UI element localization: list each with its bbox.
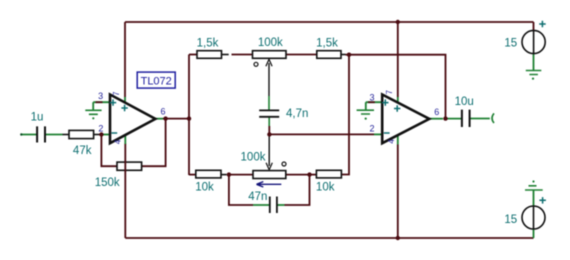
input terminal: [20, 133, 22, 135]
svg-text:100k: 100k: [258, 37, 283, 49]
V2 plus mark: [539, 197, 546, 204]
wire U2 output to C4: [446, 118, 462, 120]
node D junction: [267, 132, 271, 136]
capacitor C4 10u: [462, 110, 470, 127]
resistor R5 47k: [69, 130, 94, 138]
node left column junction: [187, 116, 191, 120]
wire node B to P2: [229, 174, 253, 176]
wire right column: [341, 55, 349, 175]
svg-text:7: 7: [112, 91, 121, 96]
potentiometer P1 terminal o: [254, 62, 258, 66]
wire C1 to R47k: [45, 134, 63, 136]
wire node D to bottom wiper: [268, 134, 270, 166]
potentiometer P2 wiper arrow: [266, 163, 272, 170]
svg-text:100k: 100k: [241, 151, 266, 163]
capacitor C3 47n: [270, 197, 277, 214]
U1 noninverting input plus mark: [110, 99, 116, 105]
wire node C to 10k right: [310, 174, 317, 176]
U1 positive supply plus mark: [121, 105, 127, 111]
wire op-amp U2 pin7 drop: [397, 22, 399, 97]
ground op-amp U2: [357, 110, 374, 114]
output terminal: [492, 113, 494, 123]
wire left column: [188, 55, 190, 176]
wire top supply rail: [125, 21, 534, 23]
wire op-amp U1 pin4 supply drop: [124, 144, 126, 239]
potentiometer P2 adjust arrow: [257, 182, 282, 187]
svg-text:47k: 47k: [73, 145, 92, 157]
ground top supply: [526, 71, 542, 75]
svg-text:4: 4: [387, 139, 396, 144]
U1 inverting input minus mark: [111, 132, 117, 134]
wire left column to R1: [189, 54, 197, 56]
node bottom rail junction: [396, 236, 400, 240]
resistor R3 10k left: [196, 170, 221, 178]
op-amp U2: [382, 95, 429, 144]
wire bottom supply lower: [533, 229, 535, 238]
wire 47n loop left: [229, 175, 253, 205]
wire top supply stub: [533, 22, 535, 31]
node C junction: [307, 172, 311, 176]
wire R47k to U1 pin2: [94, 134, 99, 136]
wire top supply to ground: [533, 54, 535, 71]
wire P2 to node C: [286, 174, 310, 176]
wire bottom supply rail: [125, 237, 533, 239]
wire C4 to output terminal: [470, 118, 490, 120]
svg-text:10k: 10k: [195, 182, 214, 194]
svg-text:10u: 10u: [455, 96, 474, 108]
resistor R1 1,5k: [197, 51, 222, 59]
node top right junction: [347, 53, 351, 57]
label TL072: [137, 72, 175, 88]
capacitor C2 4,7n: [259, 110, 279, 116]
op-amp U1: [110, 95, 155, 144]
capacitor C1 1u: [37, 126, 45, 142]
wire 47n loop right: [277, 204, 284, 206]
U2 positive supply plus mark: [394, 105, 400, 111]
wire U2 pin3 to ground: [366, 101, 382, 103]
svg-text:TL072: TL072: [141, 76, 172, 88]
svg-text:4,7n: 4,7n: [286, 108, 308, 120]
potentiometer P1 wiper arrow: [266, 59, 272, 66]
U2 inverting input minus mark: [384, 132, 390, 134]
node U2 out junction: [443, 116, 447, 120]
source V1 15 top: [522, 30, 545, 53]
svg-text:3: 3: [98, 91, 103, 101]
wire left column to 10k left: [189, 174, 196, 176]
resistor R6 150k: [117, 162, 142, 170]
svg-text:15: 15: [504, 214, 517, 226]
resistor R2 1,5k: [317, 51, 341, 59]
wire U2 output lead: [429, 118, 443, 120]
svg-text:2: 2: [98, 124, 103, 134]
wire op-amp U2 pin4 drop: [397, 145, 399, 239]
svg-text:1,5k: 1,5k: [197, 37, 219, 49]
U2 noninverting input plus mark: [382, 99, 388, 105]
svg-text:47n: 47n: [248, 191, 267, 203]
wire bottom row: 10k right lead to node B: [221, 174, 227, 176]
wire C2 bottom to node D: [268, 117, 270, 126]
ground op-amp U1: [85, 110, 101, 114]
node B junction: [227, 172, 231, 176]
potentiometer P1 100k: [253, 51, 287, 59]
wire U1 output lead: [155, 118, 163, 120]
potentiometer P2 terminal o: [282, 162, 286, 166]
svg-text:4: 4: [114, 139, 123, 144]
wire P1 to R2: [286, 54, 317, 56]
potentiometer P2 100k: [253, 171, 286, 179]
wire 150k right to output node: [142, 119, 166, 167]
wire node A drop to 150k: [101, 135, 117, 167]
ground bottom supply inverted: [532, 180, 534, 182]
wire bottom supply upper: [533, 190, 535, 206]
wire node top-right to U2 output feedback: [349, 55, 446, 119]
node A junction: [99, 132, 103, 136]
wire node D to U2 pin2: [269, 133, 374, 135]
svg-text:1,5k: 1,5k: [316, 37, 338, 49]
node top rail junction: [396, 20, 400, 24]
wire input lead: [21, 134, 38, 136]
svg-text:2: 2: [369, 123, 374, 133]
svg-text:6: 6: [160, 107, 165, 117]
svg-text:10k: 10k: [316, 182, 335, 194]
wire op-amp U1 pin7 supply drop: [124, 22, 126, 97]
svg-text:1u: 1u: [31, 112, 44, 124]
wire R2 lead to node: [341, 54, 346, 56]
wire wiper to C2 4,7n: [268, 63, 270, 96]
wire U1 pin3 to ground: [93, 101, 110, 103]
svg-text:15: 15: [504, 38, 517, 50]
wire R1 to P1: [232, 54, 253, 56]
svg-text:6: 6: [434, 107, 439, 117]
V1 plus mark: [539, 21, 546, 28]
wire R1 lead right: [222, 54, 229, 56]
source V2 15 bottom: [522, 206, 545, 229]
svg-text:7: 7: [385, 90, 394, 95]
svg-text:3: 3: [369, 93, 374, 103]
svg-text:150k: 150k: [95, 177, 120, 189]
node U1 out junction: [163, 116, 167, 120]
resistor R4 10k right: [316, 170, 341, 178]
